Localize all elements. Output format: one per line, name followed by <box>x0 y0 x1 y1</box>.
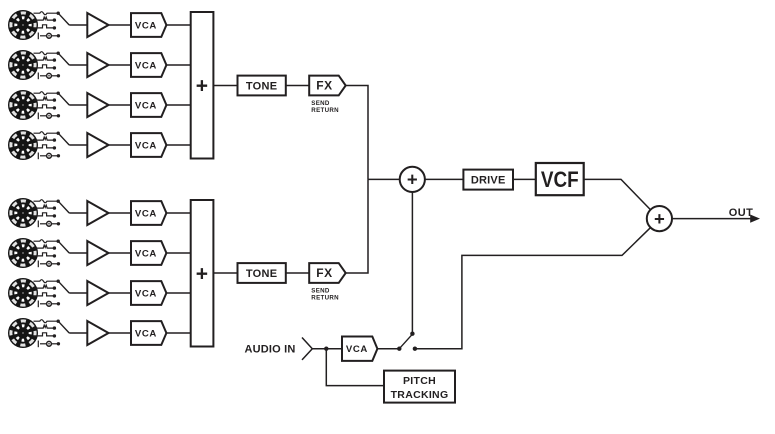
mixer 1 (+) <box>191 12 214 159</box>
DRIVE block <box>463 170 513 190</box>
PITCH TRACKING block <box>384 371 455 403</box>
svg-text:+: + <box>196 75 208 98</box>
svg-text:VCF: VCF <box>541 168 579 193</box>
voice row 2 <box>8 50 191 80</box>
wire TONE2 to FX2 <box>286 272 309 274</box>
voice row 1 <box>8 10 191 40</box>
svg-text:TONE: TONE <box>246 268 278 280</box>
junction to pitch tracking <box>324 347 328 351</box>
voice row 3 <box>8 90 191 120</box>
switch pole <box>397 347 401 351</box>
svg-text:OUT: OUT <box>729 207 753 219</box>
wire FX1 to summing node <box>346 86 368 180</box>
TONE block 1 <box>238 76 286 96</box>
switch arm <box>399 334 412 349</box>
voice row 5 <box>8 198 191 228</box>
wire mixer1 to TONE1 <box>213 85 237 87</box>
wire DRIVE to VCF <box>513 178 536 180</box>
wire adder1 to DRIVE <box>425 178 464 180</box>
voice row 4 <box>8 130 191 160</box>
wire jack to VCA <box>312 348 342 350</box>
wire FX2 to summing node <box>346 179 368 273</box>
svg-text:TRACKING: TRACKING <box>391 389 449 401</box>
voice row 8 <box>8 318 191 348</box>
wire VCF to adder 2 <box>584 179 651 209</box>
VCF block <box>536 163 584 195</box>
audio-in VCA block <box>342 337 377 361</box>
pitch tracking branch wire <box>326 349 384 386</box>
bypass wire to adder 2 <box>415 228 651 349</box>
wire VCA to switch <box>377 348 399 350</box>
svg-text:RETURN: RETURN <box>311 107 339 114</box>
svg-text:+: + <box>654 208 665 229</box>
audio input jack <box>302 338 312 360</box>
svg-text:FX: FX <box>316 79 333 93</box>
adder node 1 <box>400 167 425 192</box>
svg-text:TONE: TONE <box>246 81 278 93</box>
wire TONE1 to FX1 <box>286 85 309 87</box>
output arrowhead <box>750 215 760 223</box>
voice row 6 <box>8 238 191 268</box>
wire to adder 1 <box>368 178 400 180</box>
FX1 send/return label <box>311 100 339 114</box>
svg-text:+: + <box>196 263 208 286</box>
TONE block 2 <box>238 263 286 283</box>
adder node 2 <box>647 206 672 231</box>
svg-text:VCA: VCA <box>346 344 368 355</box>
svg-text:FX: FX <box>316 266 333 280</box>
output wire <box>672 218 751 220</box>
wire mixer2 to TONE2 <box>213 272 237 274</box>
FX block 1 <box>309 76 346 96</box>
svg-text:DRIVE: DRIVE <box>471 175 506 187</box>
FX block 2 <box>309 263 346 283</box>
svg-text:+: + <box>407 169 418 190</box>
switch throw upper <box>410 332 414 336</box>
mixer 2 (+) <box>191 200 214 347</box>
FX2 send/return label <box>311 288 339 302</box>
voice row 7 <box>8 278 191 308</box>
svg-text:RETURN: RETURN <box>311 294 339 301</box>
svg-text:PITCH: PITCH <box>403 375 436 387</box>
switch throw right <box>413 347 417 351</box>
svg-text:AUDIO IN: AUDIO IN <box>244 344 295 356</box>
wire switch to adder1 <box>411 192 413 334</box>
